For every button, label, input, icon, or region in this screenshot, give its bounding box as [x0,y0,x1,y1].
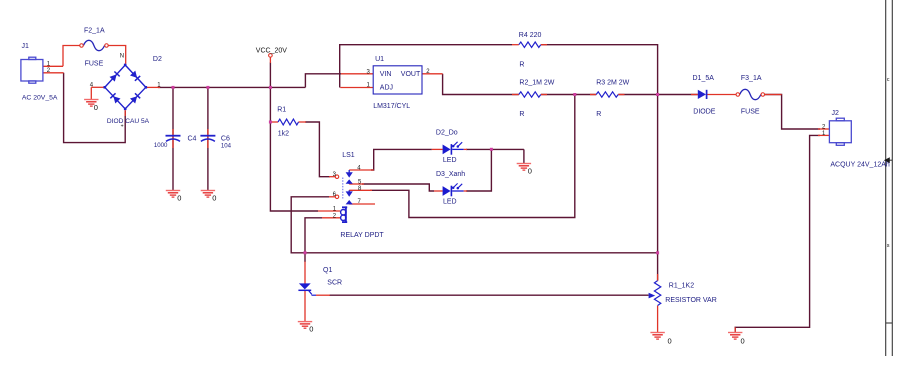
svg-text:SCR: SCR [327,280,342,287]
svg-text:+: + [121,123,124,129]
svg-text:D2: D2 [153,56,162,63]
svg-text:c: c [887,77,890,83]
svg-text:D2_Do: D2_Do [436,129,458,136]
svg-text:RESISTOR VAR: RESISTOR VAR [665,297,716,304]
svg-text:Q1: Q1 [323,267,332,274]
svg-text:R: R [596,111,601,118]
svg-text:VOUT: VOUT [401,71,421,78]
svg-text:D3_Xanh: D3_Xanh [436,171,465,178]
svg-text:1000: 1000 [154,142,168,149]
svg-text:J2: J2 [832,110,840,117]
svg-text:R2_1M 2W: R2_1M 2W [519,80,554,87]
svg-text:s: s [887,243,890,249]
svg-text:C4: C4 [188,136,197,143]
svg-text:F2_1A: F2_1A [84,28,105,35]
svg-text:1k2: 1k2 [278,131,289,138]
svg-text:D1_5A: D1_5A [693,75,715,82]
svg-text:FUSE: FUSE [741,109,760,116]
svg-text:LM317/CYL: LM317/CYL [373,103,410,110]
svg-text:LED: LED [443,157,457,164]
svg-text:0: 0 [668,337,672,346]
svg-text:0: 0 [212,194,216,203]
svg-text:FUSE: FUSE [85,61,104,68]
svg-text:0: 0 [309,325,313,334]
svg-text:VCC_20V: VCC_20V [256,47,287,54]
svg-text:0: 0 [528,167,532,176]
svg-text:LED: LED [443,198,457,205]
svg-text:N: N [120,53,124,59]
svg-text:U1: U1 [375,56,384,63]
svg-text:104: 104 [221,143,232,150]
svg-text:DIOD CAU 5A: DIOD CAU 5A [107,118,150,125]
svg-text:R: R [519,62,524,69]
svg-text:0: 0 [177,194,181,203]
svg-text:DIODE: DIODE [693,109,716,116]
svg-text:R3 2M 2W: R3 2M 2W [596,80,629,87]
svg-text:R1_1K2: R1_1K2 [669,283,694,290]
svg-text:0: 0 [741,337,745,346]
svg-text:J1: J1 [22,43,30,50]
svg-text:RELAY DPDT: RELAY DPDT [340,232,384,239]
svg-text:C6: C6 [221,136,230,143]
svg-text:VIN: VIN [380,71,392,78]
svg-text:ADJ: ADJ [380,84,393,91]
svg-text:LS1: LS1 [342,152,355,159]
svg-text:AC 20V_5A: AC 20V_5A [22,95,58,102]
svg-text:R: R [519,111,524,118]
svg-text:F3_1A: F3_1A [741,75,762,82]
svg-text:R4 220: R4 220 [519,32,542,39]
svg-text:0: 0 [94,103,98,112]
svg-text:ACQUY 24V_12Ah: ACQUY 24V_12Ah [830,162,890,169]
svg-text:R1: R1 [277,106,286,113]
